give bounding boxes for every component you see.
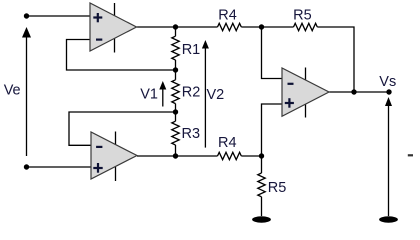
svg-text:Vs: Vs — [379, 74, 396, 90]
node dot R4/R5 bottom junction — [259, 153, 264, 158]
ground at Vs — [379, 216, 398, 222]
op-amp U2 minus input symbol — [96, 146, 102, 148]
op-amp U1 minus input symbol — [96, 38, 102, 40]
op-amp U2 triangle — [91, 132, 137, 179]
svg-text:Ve: Ve — [4, 83, 21, 99]
arrow Ve — [26, 36, 28, 156]
op-amp U3 triangle — [282, 68, 329, 116]
svg-text:R2: R2 — [182, 84, 201, 100]
node dot R2/R3 junction — [173, 109, 178, 114]
resistor R4 top zigzag — [218, 23, 242, 30]
wire top + input of U1 — [27, 15, 91, 17]
op-amp U3 plus input symbol — [285, 98, 294, 108]
resistor R3 zigzag — [172, 121, 179, 145]
node dot U3 output — [351, 89, 356, 94]
svg-text:R4: R4 — [218, 8, 237, 24]
arrow Vs — [385, 97, 392, 106]
wire middle column R1 lead — [175, 27, 177, 36]
resistor R1 zigzag — [172, 36, 179, 60]
svg-text:R5: R5 — [293, 7, 312, 23]
svg-text:R5: R5 — [268, 180, 287, 196]
node dot R4/R5 top junction — [259, 24, 264, 29]
op-amp U1 plus input symbol — [93, 13, 102, 22]
op-amp U1 power pins — [114, 3, 116, 16]
op-amp U2 plus input symbol — [93, 163, 102, 173]
svg-text:V1: V1 — [140, 87, 158, 103]
wire U3 output to Vs — [329, 91, 389, 93]
node dot R1/R2 junction — [173, 67, 178, 72]
wire U2 output run — [137, 155, 218, 157]
wire node to U3 non-inverting input — [262, 104, 283, 156]
wire R4 top to node — [241, 26, 293, 28]
svg-text:R4: R4 — [218, 135, 237, 151]
op-amp U2 power pins — [115, 132, 117, 145]
resistor R5 top zigzag — [294, 23, 318, 30]
minus polarity dash right edge — [408, 154, 413, 156]
node dot Ve bottom terminal — [24, 164, 29, 169]
wire R5 top to output node — [317, 27, 354, 92]
wire R2 to R3 — [175, 104, 177, 122]
arrow V2 — [204, 48, 206, 148]
wire node to U3 inverting input — [262, 27, 283, 79]
wire R1 to R2 — [175, 60, 177, 80]
wire U1 output to node — [137, 26, 218, 28]
op-amp U3 power pins — [305, 68, 307, 82]
op-amp U1 triangle — [90, 3, 137, 51]
resistor R4 bottom zigzag — [218, 152, 242, 159]
arrow V1 — [162, 89, 164, 107]
node dot Vs terminal — [386, 89, 391, 94]
op-amp U3 minus input symbol — [288, 83, 294, 85]
svg-text:R1: R1 — [182, 42, 201, 58]
wire R5 bottom lead — [261, 156, 263, 173]
svg-text:R3: R3 — [182, 126, 201, 142]
wire Vs to ground — [388, 100, 390, 216]
node dot U1 output / R1 top — [173, 24, 178, 29]
wire U1 feedback loop — [67, 40, 176, 71]
node dot U2 output / R3 bottom — [173, 153, 178, 158]
resistor R5 bottom zigzag — [258, 173, 265, 197]
wire R3 to bottom run — [175, 145, 177, 156]
resistor R2 zigzag — [172, 80, 179, 104]
node dot Ve top terminal — [24, 13, 29, 18]
wire R5 bottom to ground — [261, 197, 263, 216]
wire bottom + input of U2 — [27, 166, 92, 168]
svg-text:V2: V2 — [207, 87, 225, 103]
wire U2 feedback loop — [69, 112, 176, 145]
wire R4 bottom to node — [241, 155, 261, 157]
ground at R5 bottom — [252, 216, 271, 222]
